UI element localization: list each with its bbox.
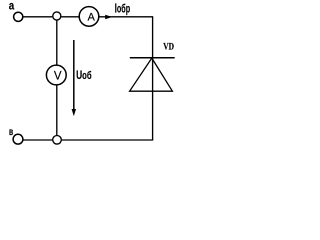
svg-text:VD: VD	[163, 42, 174, 52]
voltmeter V	[46, 65, 66, 85]
wire J1 to ammeter	[61, 16, 79, 18]
right rail wire	[152, 17, 154, 140]
svg-text:a: a	[9, 0, 14, 13]
node J1	[53, 12, 61, 20]
diode VD triangle	[130, 58, 173, 91]
wire a to node J1	[23, 16, 52, 18]
wire в to node J2	[23, 139, 52, 141]
node J2	[53, 136, 62, 145]
wire J1 down to voltmeter	[56, 21, 58, 65]
voltage arrow Uоб	[72, 40, 77, 116]
ammeter A	[79, 7, 99, 27]
bottom wire J2 to right rail	[62, 139, 154, 141]
terminal a	[14, 12, 23, 21]
svg-text:в: в	[9, 126, 13, 138]
svg-text:V: V	[54, 70, 62, 82]
wire voltmeter down to node J2	[56, 85, 58, 135]
current arrow head	[105, 15, 112, 19]
diode VD cathode bar	[130, 57, 175, 59]
wire ammeter to right rail	[99, 16, 153, 18]
svg-text:Uоб: Uоб	[76, 70, 92, 83]
svg-text:Iобр: Iобр	[115, 2, 131, 16]
svg-text:A: A	[88, 11, 96, 23]
terminal в	[13, 134, 23, 144]
